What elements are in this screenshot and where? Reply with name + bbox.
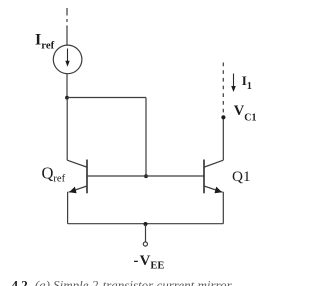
node base junction dot xyxy=(144,174,148,178)
wire current source to node A xyxy=(66,74,68,98)
wire bottom emitter rail xyxy=(68,223,224,225)
wire shared base line Q_ref to Q1 xyxy=(87,175,204,177)
node VC1 dot xyxy=(221,115,225,119)
wire dashed output lead xyxy=(222,63,224,114)
wire Q_ref emitter down to rail xyxy=(67,192,69,224)
transistor Q1 xyxy=(204,160,223,194)
wire node A horizontal to mirror tie xyxy=(67,97,146,99)
terminal VEE open circle xyxy=(143,242,147,246)
current source I_ref xyxy=(53,45,82,74)
wire rail to VEE terminal xyxy=(145,224,147,242)
wire node A down to Q_ref collector xyxy=(66,98,68,161)
wire Q1 emitter down to rail xyxy=(222,192,224,224)
wire Q1 collector up to node VC1 xyxy=(222,117,224,160)
wire dashed supply lead top-left xyxy=(66,8,68,27)
node VEE junction dot on rail xyxy=(144,222,148,226)
current arrow I1 xyxy=(231,74,236,93)
transistor Q_ref xyxy=(67,160,87,194)
wire mirror tie vertical down to base node xyxy=(145,98,147,177)
svg-text:Q1: Q1 xyxy=(232,168,251,185)
wire solid lead into current source xyxy=(66,26,68,45)
svg-text:4.2(a) Simple 2-transistor cur: 4.2(a) Simple 2-transistor current mirro… xyxy=(12,277,234,286)
node A junction dot xyxy=(65,96,69,100)
